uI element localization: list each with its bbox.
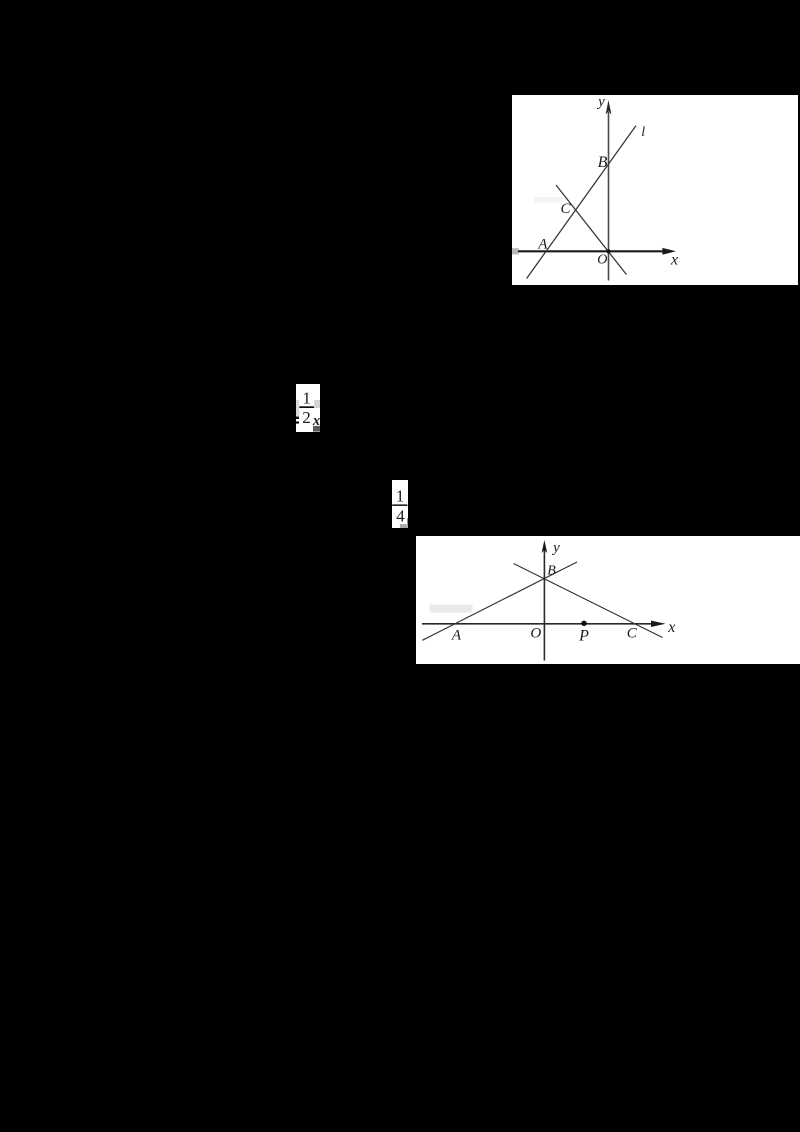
svg-text:y: y bbox=[551, 540, 560, 556]
x-axis arrowhead bbox=[662, 248, 676, 255]
svg-text:1: 1 bbox=[396, 487, 405, 506]
x-axis arrowhead bbox=[651, 620, 666, 626]
gray tab at left edge on x-axis bbox=[512, 248, 519, 254]
light gray patch left bbox=[296, 400, 299, 416]
figure 1 white panel bbox=[512, 95, 798, 285]
y-axis bbox=[608, 112, 610, 281]
svg-text:2: 2 bbox=[302, 408, 311, 427]
svg-text:y: y bbox=[596, 95, 605, 110]
svg-text:B: B bbox=[547, 563, 556, 578]
x-axis bbox=[518, 250, 664, 252]
dark gray square bottom right bbox=[313, 426, 320, 432]
y-axis arrowhead bbox=[606, 100, 612, 115]
svg-text:O: O bbox=[530, 625, 541, 641]
svg-text:C: C bbox=[626, 625, 637, 641]
junction dot at O bbox=[607, 249, 611, 253]
y-axis bbox=[543, 550, 545, 661]
figure 2 white panel bbox=[416, 536, 800, 664]
gray patch bottom right bbox=[400, 524, 408, 528]
svg-text:C: C bbox=[560, 201, 571, 217]
svg-text:A: A bbox=[450, 627, 461, 643]
dark nub right edge bbox=[407, 518, 408, 524]
line l through A and B bbox=[527, 126, 636, 279]
faint smudge left area bbox=[429, 604, 472, 612]
equals-sign fragment at left edge bbox=[296, 417, 299, 420]
svg-text:A: A bbox=[537, 236, 548, 252]
svg-text:x: x bbox=[670, 251, 678, 268]
faint smudge left of C bbox=[534, 197, 563, 203]
light gray patch right of bar bbox=[314, 400, 320, 408]
fraction bar bbox=[299, 406, 314, 408]
fraction 1/4 white panel bbox=[392, 480, 408, 528]
fraction 1/2 white panel bbox=[296, 384, 320, 432]
svg-text:P: P bbox=[578, 627, 589, 644]
svg-text:O: O bbox=[597, 252, 607, 267]
point P dot bbox=[581, 620, 586, 625]
svg-text:l: l bbox=[641, 125, 645, 140]
ascending line through A and B bbox=[422, 562, 577, 640]
svg-text:4: 4 bbox=[396, 507, 405, 526]
x-axis bbox=[422, 622, 653, 624]
svg-text:1: 1 bbox=[302, 388, 311, 407]
svg-text:x: x bbox=[667, 618, 675, 635]
y-axis arrowhead bbox=[541, 540, 547, 553]
fraction bar bbox=[392, 504, 407, 506]
svg-text:B: B bbox=[598, 154, 608, 171]
descending line through B and C bbox=[513, 563, 662, 637]
second line through C and O bbox=[556, 185, 626, 275]
